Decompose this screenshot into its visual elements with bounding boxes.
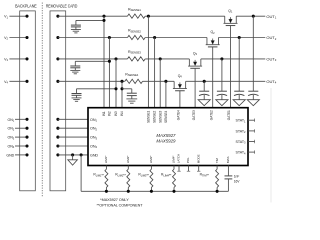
junction CIN2 on IN2 bus — [108, 60, 111, 63]
svg-text:IN3: IN3 — [114, 111, 118, 116]
pin stub MODE — [198, 166, 200, 172]
wire bottom GND rail — [81, 190, 228, 192]
svg-text:MODE: MODE — [196, 154, 200, 163]
wire ON2 card to IC — [58, 127, 88, 129]
junction IN2 tap — [108, 36, 111, 39]
wire V4 rail from card to RSENSE4 — [58, 80, 125, 82]
junction RLIM4 to GND rail — [172, 190, 175, 193]
wire ON3 to backplane pin — [15, 136, 27, 138]
transistor Q4 — [173, 81, 187, 90]
capacitor OUT1 bulk cap — [248, 90, 258, 92]
resistor RSENSE1 — [128, 14, 146, 18]
removable card connector box — [50, 11, 66, 191]
svg-text:LIM3*: LIM3* — [149, 155, 153, 163]
wire ON2 to backplane pin — [15, 127, 27, 129]
ground OUT3 cap — [221, 95, 223, 100]
ground CIN1 — [75, 27, 77, 30]
backplane connector box — [20, 11, 36, 191]
card pin V4 — [56, 80, 59, 83]
svg-text:TIM: TIM — [215, 158, 219, 164]
wire OUT2 down to capacitor — [238, 38, 240, 92]
wire CIN3 cap to IN3 bus — [77, 88, 117, 90]
pin stub POL — [188, 166, 190, 172]
junction RTIM to GND rail — [216, 190, 219, 193]
pin stub STAT3 — [248, 141, 255, 143]
IC U1 MAX5927/MAX5929 — [88, 108, 248, 166]
transistor Q2 — [206, 38, 220, 47]
svg-text:LIM2*: LIM2* — [126, 155, 130, 163]
wire SENSE3 down to IC pin SENSE3 — [159, 59, 161, 108]
svg-text:1nF: 1nF — [234, 175, 240, 179]
wire ON1 card to IC — [58, 118, 88, 120]
svg-text:SENSE2: SENSE2 — [153, 110, 157, 123]
svg-text:LIM1*: LIM1* — [104, 155, 108, 163]
svg-text:GND: GND — [90, 153, 98, 157]
svg-text:IN1: IN1 — [102, 111, 106, 116]
wire OUT4 down to capacitor — [203, 81, 205, 91]
junction CIN4 on IN4 bus — [120, 87, 123, 90]
junction RLIM1 to GND rail — [105, 190, 108, 193]
wire CIN1 cap to IN1 bus — [76, 19, 104, 21]
wire V3 rail from card to RSENSE3 — [58, 58, 128, 60]
wire V4 to backplane pin — [9, 80, 27, 82]
capacitor CIN1 — [75, 20, 77, 25]
resistor RSENSE2 — [128, 35, 146, 39]
junction IN1 tap — [102, 15, 105, 18]
svg-text:*MAX5927 ONLY: *MAX5927 ONLY — [100, 198, 129, 202]
svg-text:REMOVABLE CARD: REMOVABLE CARD — [46, 4, 78, 9]
backplane pin V1 — [25, 15, 28, 18]
ground (card GND) triangle — [72, 155, 74, 160]
pin stub STAT4 — [248, 151, 255, 153]
wire OUT2 from Q2 — [218, 37, 265, 39]
junction GND to bottom rail — [80, 153, 83, 156]
capacitor OUT2 bulk cap — [234, 90, 244, 92]
wire GND card to IC — [58, 154, 88, 156]
svg-text:LATCH: LATCH — [177, 154, 181, 163]
capacitor CIN2 — [74, 61, 76, 66]
junction IN4 tap — [120, 80, 123, 83]
resistor RTIM — [216, 166, 218, 170]
junction SENSE3 tap — [159, 57, 162, 60]
faint page artifact line — [270, 88, 272, 203]
wire GND to backplane pin — [15, 154, 27, 156]
wire V2 to backplane pin — [9, 37, 27, 39]
card pin V2 — [56, 36, 59, 39]
ground CIN3 — [76, 95, 78, 98]
wire GATE2 from Q2 to IC pin GATE2 — [212, 47, 214, 108]
junction CIN1 on IN1 bus — [102, 19, 105, 22]
svg-text:IN2: IN2 — [108, 111, 112, 116]
transistor Q1 — [224, 16, 238, 25]
wire ON3 card to IC — [58, 136, 88, 138]
card pin ON3 — [56, 136, 59, 139]
wire CIN4 cap from IN4 bus — [122, 88, 132, 90]
svg-text:GATE4: GATE4 — [177, 110, 181, 120]
junction CIN3 on IN3 bus — [114, 87, 117, 90]
wire SENSE2 down to IC pin SENSE2 — [154, 38, 156, 108]
wire OUT3 down to capacitor — [221, 59, 223, 91]
ground OUT2 cap — [238, 95, 240, 100]
card pin ON1 — [56, 118, 59, 121]
wire OUT1 from Q1 — [236, 15, 265, 17]
card pin V3 — [56, 57, 59, 60]
wire RSENSE3 to Q3 — [145, 58, 189, 60]
resistor RLIM2 — [127, 166, 129, 170]
wire IN2 bus down to IC pin IN2 — [108, 38, 110, 108]
wire CIN2 cap to IN2 bus — [75, 60, 109, 62]
svg-text:BIAS: BIAS — [226, 157, 230, 164]
wire GND down to bottom rail — [80, 155, 82, 191]
backplane pin ON2 — [25, 127, 28, 130]
wire ON4 to backplane pin — [15, 145, 27, 147]
pin stub STAT1 — [248, 119, 255, 121]
resistor RLIM3 — [150, 166, 152, 170]
resistor RSENSE3 — [128, 57, 146, 61]
junction IN3 tap — [114, 57, 117, 60]
card pin GND — [56, 153, 59, 156]
junction SENSE4 tap — [164, 80, 167, 83]
transistor Q3 — [188, 59, 202, 68]
svg-text:MAX5927: MAX5927 — [156, 133, 176, 138]
ground CIN2 — [74, 68, 76, 71]
svg-text:BACKPLANE: BACKPLANE — [15, 3, 37, 8]
svg-text:16V: 16V — [234, 179, 241, 183]
svg-text:**OPTIONAL COMPONENT: **OPTIONAL COMPONENT — [97, 204, 144, 208]
card pin ON2 — [56, 127, 59, 130]
backplane pin V4 — [25, 80, 28, 83]
wire ON4 card to IC — [58, 145, 88, 147]
wire SENSE1 down to IC pin SENSE1 — [147, 16, 149, 108]
capacitor CIN4 — [127, 92, 137, 94]
backplane pin ON3 — [25, 136, 28, 139]
backplane pin V3 — [25, 57, 28, 60]
svg-text:GATE2: GATE2 — [209, 110, 213, 120]
junction RLIM3 to GND rail — [150, 190, 153, 193]
svg-text:GATE1: GATE1 — [227, 110, 231, 120]
junction RLIM2 to GND rail — [127, 190, 130, 193]
wire V2 rail from card to RSENSE2 — [58, 37, 128, 39]
backplane pin ON1 — [25, 118, 28, 121]
pin stub STAT2 — [248, 130, 255, 132]
backplane pin GND — [25, 153, 28, 156]
wire OUT3 from Q3 — [201, 58, 265, 60]
junction OUT4 cap tap — [203, 80, 206, 83]
card pin V1 — [56, 15, 59, 18]
wire IN3 bus down to IC pin IN3 — [115, 59, 117, 108]
card pin ON4 — [56, 144, 59, 147]
wire OUT4 from Q4 — [186, 80, 266, 82]
svg-text:POL: POL — [186, 157, 190, 163]
junction OUT1 cap tap — [252, 15, 255, 18]
resistor RLIM1 — [105, 166, 107, 170]
wire V3 to backplane pin — [9, 58, 27, 60]
svg-text:SENSE3: SENSE3 — [158, 110, 162, 123]
svg-text:MAX5929: MAX5929 — [156, 139, 176, 144]
capacitor OUT4 bulk cap — [199, 90, 209, 92]
wire SENSE4 down to IC pin SENSE4 — [165, 81, 167, 107]
ground OUT4 cap — [203, 95, 205, 100]
pin stub LATCH — [178, 166, 180, 172]
wire IN4 bus down to IC pin IN4 — [121, 81, 123, 107]
wire V1 rail from card to RSENSE1 — [58, 15, 128, 17]
svg-text:IN4: IN4 — [120, 111, 124, 116]
wire ON1 to backplane pin — [15, 118, 27, 120]
wire RSENSE2 to Q2 — [145, 37, 207, 39]
wire GATE3 from Q3 to IC pin GATE3 — [194, 68, 196, 107]
wire IN1 bus down to IC pin IN1 — [103, 16, 105, 108]
wire V1 to backplane pin — [9, 15, 27, 17]
resistor RLIM4 — [173, 166, 175, 170]
wire RSENSE1 to Q1 — [145, 15, 225, 17]
svg-text:SENSE4: SENSE4 — [164, 110, 168, 123]
svg-text:GND: GND — [6, 153, 14, 157]
card edge dashed separator — [41, 3, 43, 198]
capacitor OUT3 bulk cap — [217, 90, 227, 92]
ground CIN4 — [131, 96, 133, 99]
capacitor BIAS bypass 1nF — [227, 166, 229, 176]
resistor RSENSE4 — [125, 79, 143, 83]
svg-text:LIM4*: LIM4* — [172, 155, 176, 163]
svg-text:SENSE1: SENSE1 — [147, 110, 151, 123]
junction SENSE1 tap — [147, 15, 150, 18]
junction GND to ground symbol — [71, 153, 74, 156]
svg-text:GATE3: GATE3 — [192, 110, 196, 120]
wire RSENSE4 to Q4 — [143, 80, 175, 82]
wire OUT1 down to capacitor — [252, 16, 254, 91]
backplane pin ON4 — [25, 144, 28, 147]
junction SENSE2 tap — [153, 36, 156, 39]
wire GATE1 from Q1 to IC pin GATE1 — [230, 26, 232, 108]
ground OUT1 cap — [252, 95, 254, 100]
junction OUT2 cap tap — [238, 36, 241, 39]
capacitor CIN3 — [76, 89, 78, 94]
wire GATE4 from Q4 to IC pin GATE4 — [179, 91, 181, 108]
junction OUT3 cap tap — [220, 57, 223, 60]
backplane pin V2 — [25, 36, 28, 39]
